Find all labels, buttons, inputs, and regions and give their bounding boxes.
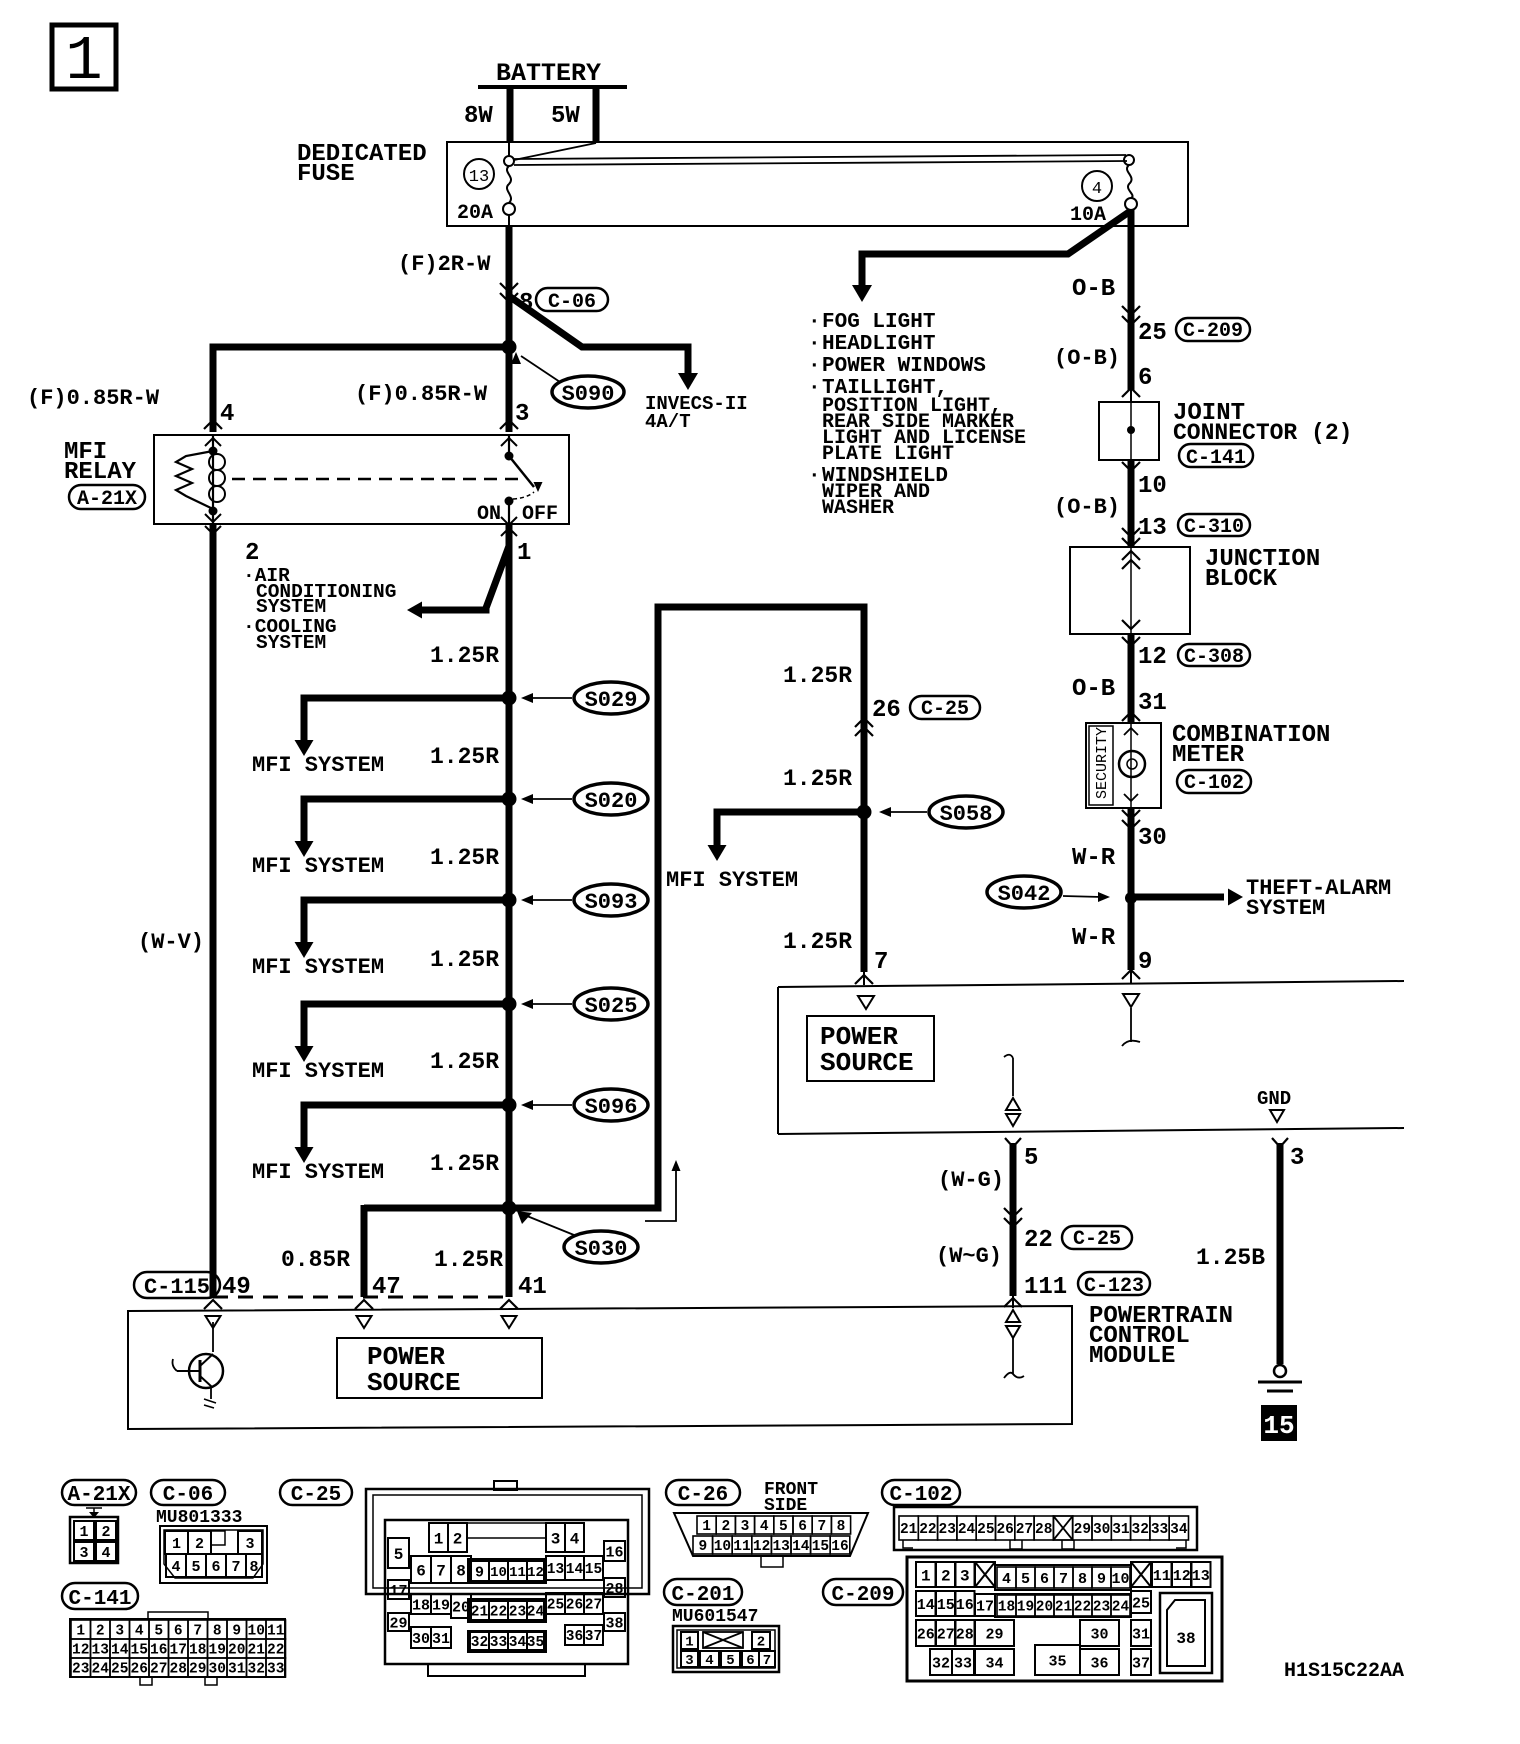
relay coil: [212, 451, 214, 511]
wire loop S030 up to power source feed: [364, 607, 864, 1208]
svg-text:C-308: C-308: [1184, 646, 1244, 669]
connector C-06 tag bottom: [151, 1480, 225, 1505]
svg-text:25: 25: [1138, 320, 1167, 347]
svg-text:(F)0.85R-W: (F)0.85R-W: [355, 382, 488, 407]
svg-text:4: 4: [220, 401, 234, 428]
svg-text:1: 1: [685, 1635, 693, 1651]
svg-text:34: 34: [509, 1635, 527, 1651]
svg-text:25: 25: [1132, 1595, 1150, 1612]
transistor inside PCM: [212, 1322, 214, 1352]
terminal chevron pin 12: [1122, 637, 1140, 646]
svg-text:MFI SYSTEM: MFI SYSTEM: [252, 1059, 384, 1084]
splice S029 junction node: [502, 691, 517, 706]
splice S058 junction node: [857, 805, 872, 820]
svg-text:14: 14: [566, 1562, 584, 1578]
svg-text:13: 13: [469, 168, 489, 187]
svg-text:31: 31: [432, 1631, 450, 1648]
svg-text:8: 8: [213, 1624, 222, 1640]
svg-text:31: 31: [1112, 1522, 1130, 1538]
connector C-25 pin view shell: [366, 1489, 649, 1594]
splice S030 tag: [564, 1231, 638, 1263]
svg-text:12: 12: [753, 1539, 770, 1555]
svg-text:3: 3: [741, 1519, 750, 1535]
svg-text:10A: 10A: [1070, 204, 1106, 227]
relay resistor: [176, 451, 213, 509]
svg-text:33: 33: [267, 1662, 284, 1678]
connector C-25 tag bottom: [1062, 1226, 1132, 1249]
terminal triangle 41: [502, 1316, 517, 1328]
connector C-141 tag bottom: [62, 1583, 138, 1609]
svg-text:6: 6: [746, 1653, 754, 1669]
svg-text:1: 1: [517, 540, 531, 567]
svg-text:14: 14: [917, 1597, 935, 1614]
svg-text:GND: GND: [1257, 1088, 1291, 1110]
svg-text:23: 23: [1093, 1600, 1110, 1616]
connector C-25 tag bottom: [280, 1480, 352, 1505]
terminal chevron pin 9: [1122, 970, 1140, 979]
svg-text:41: 41: [518, 1274, 547, 1301]
svg-text:10: 10: [490, 1565, 507, 1581]
wire 1.25B ground: [1272, 1138, 1288, 1147]
svg-text:15: 15: [937, 1597, 955, 1614]
wire (F)2R-W from fuse 13: [506, 226, 513, 300]
svg-text:1.25R: 1.25R: [430, 845, 499, 871]
terminal triangle 47: [357, 1316, 372, 1328]
connector C-06 tag: [536, 288, 608, 311]
branch to light systems: [862, 212, 1129, 286]
splice S020 tag: [574, 783, 648, 815]
connector C-06 pin view: [160, 1526, 267, 1583]
svg-text:9: 9: [698, 1539, 707, 1555]
svg-text:2: 2: [757, 1635, 765, 1651]
connector C-141 tag: [1179, 444, 1253, 467]
svg-text:1.25R: 1.25R: [783, 929, 852, 955]
junction node on R-W wire: [502, 340, 517, 355]
svg-text:2: 2: [721, 1519, 730, 1535]
svg-text:26: 26: [131, 1662, 148, 1678]
fuse 4 circle: [1082, 171, 1112, 201]
splice S029 tag: [574, 682, 648, 714]
svg-text:S096: S096: [585, 1095, 638, 1120]
svg-text:1.25R: 1.25R: [430, 1151, 499, 1177]
svg-text:26: 26: [917, 1626, 935, 1643]
powertrain control module box: [128, 1306, 1072, 1429]
svg-text:2: 2: [96, 1624, 105, 1640]
wire 47 branch: [361, 1205, 368, 1297]
svg-text:2: 2: [195, 1536, 204, 1553]
wire 5W from battery: [593, 87, 600, 143]
svg-text:1.25R: 1.25R: [430, 744, 499, 770]
splice S042 tag: [987, 876, 1061, 908]
svg-text:30: 30: [209, 1662, 226, 1678]
svg-text:1: 1: [702, 1519, 711, 1535]
svg-text:1: 1: [434, 1530, 444, 1548]
svg-text:C-25: C-25: [921, 698, 969, 721]
svg-text:WASHER: WASHER: [822, 497, 894, 520]
terminal chevron pin 111: [1004, 1298, 1022, 1307]
svg-text:·: ·: [808, 465, 821, 488]
svg-text:BATTERY: BATTERY: [496, 59, 601, 88]
battery bus bar: [478, 85, 627, 89]
svg-text:26: 26: [996, 1522, 1013, 1538]
arrow S020 to junction: [528, 798, 572, 800]
svg-text:20: 20: [1036, 1600, 1053, 1616]
svg-text:S093: S093: [585, 890, 638, 915]
reference arrow at loop: [645, 1168, 676, 1221]
svg-text:26: 26: [872, 697, 901, 724]
svg-text:8: 8: [249, 1559, 258, 1576]
svg-text:14: 14: [792, 1539, 810, 1555]
svg-text:33: 33: [490, 1635, 507, 1651]
terminal chevron pin 3: [500, 420, 518, 429]
svg-text:18: 18: [412, 1597, 430, 1614]
svg-text:W-R: W-R: [1072, 845, 1116, 872]
svg-text:30: 30: [1093, 1522, 1110, 1538]
svg-text:·: ·: [808, 377, 821, 400]
splice S025 junction node: [502, 997, 517, 1012]
svg-text:12: 12: [1173, 1568, 1191, 1585]
svg-text:11: 11: [267, 1624, 285, 1640]
fuse 13 element: [508, 143, 510, 157]
svg-text:4: 4: [171, 1559, 180, 1576]
connector C-26 pin view: [674, 1513, 868, 1556]
svg-text:27: 27: [937, 1626, 955, 1643]
connector C-123 tag: [1078, 1272, 1150, 1295]
wire W-V pin2 to PCM 49: [210, 524, 217, 1297]
svg-text:22: 22: [1024, 1227, 1053, 1254]
terminal chevron pin 31: [1122, 712, 1140, 721]
svg-text:·: ·: [808, 311, 821, 334]
terminal chevron pin 4: [204, 420, 222, 429]
arrow S093 to junction: [528, 899, 572, 901]
svg-text:C-141: C-141: [68, 1588, 131, 1611]
svg-text:2: 2: [453, 1530, 463, 1548]
connector C-115 tag: [134, 1272, 220, 1298]
svg-text:C-123: C-123: [1084, 1275, 1144, 1298]
svg-text:PLATE LIGHT: PLATE LIGHT: [822, 443, 954, 466]
svg-text:22: 22: [490, 1605, 507, 1621]
arrow S029 to junction: [528, 697, 572, 699]
svg-text:(W-V): (W-V): [138, 930, 204, 955]
connector 30 chevrons: [1122, 810, 1140, 819]
terminal chevron 41: [500, 1300, 518, 1309]
svg-text:S029: S029: [585, 688, 638, 713]
relay coil bottom node: [209, 507, 218, 516]
svg-text:29: 29: [1074, 1522, 1091, 1538]
svg-text:2: 2: [941, 1567, 951, 1585]
arrow S025 to junction: [528, 1003, 572, 1005]
splice S025 tag: [574, 988, 648, 1020]
svg-text:1.25R: 1.25R: [430, 643, 499, 669]
arrow S090 to junction: [521, 356, 560, 382]
svg-text:1.25R: 1.25R: [430, 947, 499, 973]
svg-text:C-209: C-209: [1183, 320, 1243, 343]
svg-text:6: 6: [798, 1519, 807, 1535]
svg-text:20A: 20A: [457, 202, 493, 225]
svg-text:21: 21: [1055, 1600, 1073, 1616]
svg-text:38: 38: [605, 1615, 623, 1632]
svg-text:(W-G): (W-G): [938, 1168, 1004, 1193]
junction node W-R: [1125, 892, 1137, 904]
svg-text:34: 34: [985, 1655, 1003, 1672]
svg-text:4: 4: [1002, 1571, 1011, 1588]
connector A-21X tag: [69, 485, 145, 509]
connector C-102 pin view: [894, 1507, 1197, 1550]
svg-text:MFI SYSTEM: MFI SYSTEM: [252, 854, 384, 879]
svg-text:1: 1: [79, 1524, 88, 1541]
svg-text:1: 1: [65, 26, 102, 97]
svg-text:33: 33: [1151, 1522, 1168, 1538]
svg-text:37: 37: [585, 1629, 602, 1645]
svg-text:17: 17: [389, 1583, 407, 1600]
svg-text:30: 30: [412, 1631, 430, 1648]
svg-text:4: 4: [101, 1545, 110, 1562]
svg-text:C-201: C-201: [671, 1584, 734, 1607]
svg-text:8: 8: [837, 1519, 846, 1535]
svg-text:9: 9: [1138, 949, 1152, 976]
svg-text:37: 37: [1132, 1655, 1150, 1672]
svg-text:1.25R: 1.25R: [430, 1049, 499, 1075]
svg-text:C-25: C-25: [1073, 1228, 1121, 1251]
svg-text:A-21X: A-21X: [67, 1484, 130, 1507]
svg-text:3: 3: [551, 1530, 561, 1548]
svg-text:29: 29: [389, 1615, 407, 1632]
svg-text:32: 32: [932, 1655, 950, 1672]
connector C-310 tag: [1178, 514, 1250, 536]
ground symbol: [1274, 1365, 1286, 1377]
svg-text:(O-B): (O-B): [1054, 346, 1120, 371]
relay coil top node: [205, 438, 221, 446]
svg-text:18: 18: [189, 1643, 206, 1659]
svg-text:1: 1: [921, 1567, 931, 1585]
svg-text:5: 5: [394, 1546, 404, 1564]
svg-text:10: 10: [1111, 1571, 1129, 1588]
svg-text:31: 31: [1138, 690, 1167, 717]
svg-text:S058: S058: [940, 802, 993, 827]
svg-text:HEADLIGHT: HEADLIGHT: [822, 333, 935, 356]
svg-text:·: ·: [808, 355, 821, 378]
svg-text:15: 15: [585, 1562, 602, 1578]
relay actuation dashed link: [232, 478, 520, 481]
svg-text:9: 9: [475, 1564, 484, 1581]
svg-text:C-26: C-26: [678, 1484, 728, 1507]
connector C-102 tag: [1177, 770, 1251, 793]
svg-text:13: 13: [1192, 1568, 1210, 1585]
svg-text:SOURCE: SOURCE: [367, 1368, 461, 1398]
svg-text:ON: ON: [477, 503, 501, 526]
svg-text:111: 111: [1024, 1274, 1067, 1301]
svg-text:31: 31: [228, 1662, 246, 1678]
svg-text:S090: S090: [562, 382, 615, 407]
svg-text:25: 25: [111, 1662, 128, 1678]
svg-text:29: 29: [985, 1626, 1003, 1643]
svg-text:15: 15: [131, 1643, 148, 1659]
svg-text:6: 6: [1040, 1571, 1049, 1588]
svg-text:7: 7: [436, 1562, 446, 1580]
svg-text:33: 33: [954, 1655, 972, 1672]
svg-text:15: 15: [812, 1539, 829, 1555]
branch S093 to MFI system: [304, 900, 509, 942]
svg-text:C-115: C-115: [144, 1275, 210, 1300]
svg-text:6: 6: [1138, 365, 1152, 392]
svg-text:9: 9: [232, 1624, 241, 1640]
svg-text:38: 38: [1176, 1630, 1195, 1648]
svg-text:16: 16: [150, 1643, 167, 1659]
svg-text:16: 16: [831, 1539, 848, 1555]
svg-text:21: 21: [471, 1605, 489, 1621]
svg-text:29: 29: [189, 1662, 206, 1678]
svg-text:7: 7: [817, 1519, 826, 1535]
svg-text:METER: METER: [1172, 742, 1245, 769]
connector A-21X tag bottom: [62, 1480, 136, 1505]
svg-text:26: 26: [566, 1598, 583, 1614]
svg-text:(F)0.85R-W: (F)0.85R-W: [27, 386, 160, 411]
svg-text:27: 27: [585, 1598, 602, 1614]
svg-text:S030: S030: [575, 1237, 628, 1262]
svg-text:2: 2: [101, 1524, 110, 1541]
terminal triangle wire 7: [858, 996, 874, 1009]
terminal chevron pin 6: [1122, 388, 1140, 397]
branch S096 to MFI system: [304, 1105, 509, 1147]
svg-text:SYSTEM: SYSTEM: [256, 632, 326, 654]
svg-text:SECURITY: SECURITY: [1094, 727, 1111, 799]
svg-text:15: 15: [1263, 1411, 1294, 1441]
svg-text:S025: S025: [585, 994, 638, 1019]
svg-text:18: 18: [998, 1600, 1015, 1616]
svg-text:MU601547: MU601547: [672, 1607, 758, 1627]
MFI relay box: [154, 435, 569, 524]
svg-text:9: 9: [1097, 1571, 1106, 1588]
splice S058 tag: [929, 796, 1003, 828]
wire 8W from battery: [507, 87, 514, 143]
svg-text:6: 6: [211, 1559, 220, 1576]
svg-text:3: 3: [685, 1653, 693, 1669]
svg-text:C-209: C-209: [831, 1584, 894, 1607]
svg-text:23: 23: [72, 1662, 89, 1678]
page link box 15: [1262, 1406, 1296, 1440]
arrow S096 to junction: [528, 1104, 572, 1106]
svg-text:35: 35: [1048, 1653, 1066, 1670]
svg-text:8: 8: [1078, 1571, 1087, 1588]
branch S029 to MFI system: [304, 698, 509, 740]
svg-text:5: 5: [779, 1519, 788, 1535]
connector 26 C-25 chevrons: [855, 718, 873, 727]
svg-text:19: 19: [209, 1643, 226, 1659]
svg-text:25: 25: [977, 1522, 994, 1538]
svg-text:1: 1: [172, 1536, 181, 1553]
connector 25 C-209 chevrons: [1122, 306, 1140, 315]
svg-text:SOURCE: SOURCE: [820, 1048, 914, 1078]
svg-text:3: 3: [245, 1536, 254, 1553]
svg-text:22: 22: [1074, 1600, 1091, 1616]
connector A-21X pin view: [86, 1508, 102, 1512]
svg-text:11: 11: [509, 1565, 526, 1581]
svg-text:14: 14: [111, 1643, 129, 1659]
svg-text:32: 32: [1132, 1522, 1149, 1538]
svg-text:13: 13: [92, 1643, 109, 1659]
svg-text:30: 30: [1090, 1626, 1108, 1643]
svg-text:MFI SYSTEM: MFI SYSTEM: [666, 868, 798, 893]
connector C-308 tag: [1178, 644, 1250, 666]
svg-text:5W: 5W: [551, 103, 580, 130]
wire (F)0.85R-W below C-06: [506, 296, 513, 347]
wire to MFI relay pin 3: [506, 347, 513, 432]
svg-text:10: 10: [714, 1539, 731, 1555]
svg-text:C-102: C-102: [889, 1484, 952, 1507]
svg-text:13: 13: [547, 1562, 564, 1578]
power source label box: [807, 1016, 934, 1081]
svg-text:3: 3: [515, 401, 529, 428]
svg-text:12: 12: [527, 1565, 544, 1581]
svg-text:C-06: C-06: [548, 291, 596, 314]
svg-text:25: 25: [547, 1598, 564, 1614]
svg-text:30: 30: [1138, 825, 1167, 852]
svg-text:(F)2R-W: (F)2R-W: [398, 252, 491, 277]
svg-text:21: 21: [900, 1522, 918, 1538]
terminal chevron pin 10: [1122, 462, 1140, 471]
svg-text:SYSTEM: SYSTEM: [256, 596, 326, 618]
svg-text:1.25R: 1.25R: [783, 766, 852, 792]
svg-text:(O-B): (O-B): [1054, 495, 1120, 520]
svg-text:1.25R: 1.25R: [434, 1247, 503, 1273]
connector 22 C-25 chevrons: [1004, 1208, 1022, 1217]
svg-text:3: 3: [79, 1545, 88, 1562]
fuse 4 element: [1124, 155, 1134, 165]
terminal triangle wire 9: [1123, 994, 1139, 1007]
combination meter box: [1086, 723, 1161, 808]
wire O-B from fuse 4: [1128, 210, 1135, 390]
svg-text:22: 22: [267, 1643, 284, 1659]
svg-text:4: 4: [705, 1653, 713, 1669]
relay switch common: [501, 438, 517, 446]
svg-text:C-310: C-310: [1184, 516, 1244, 539]
connector C-209 tag: [1176, 318, 1250, 341]
svg-text:8W: 8W: [464, 103, 493, 130]
wire W-G pin 5: [1005, 1138, 1021, 1147]
svg-text:24: 24: [1112, 1600, 1130, 1616]
svg-text:C-141: C-141: [1186, 447, 1246, 470]
branch to theft-alarm system: [1131, 894, 1224, 901]
svg-text:13: 13: [772, 1539, 789, 1555]
svg-text:19: 19: [1017, 1600, 1034, 1616]
svg-text:17: 17: [170, 1643, 187, 1659]
splice S030 junction node: [502, 1201, 517, 1216]
svg-text:4: 4: [760, 1519, 769, 1535]
svg-text:28: 28: [170, 1662, 187, 1678]
terminal chevron pin 7: [855, 975, 873, 984]
svg-text:28: 28: [956, 1626, 974, 1643]
svg-text:2: 2: [245, 540, 259, 567]
joint connector (2) box: [1099, 402, 1159, 460]
svg-text:POWER WINDOWS: POWER WINDOWS: [822, 355, 986, 378]
svg-text:23: 23: [939, 1522, 956, 1538]
svg-text:MODULE: MODULE: [1089, 1343, 1175, 1370]
svg-text:S042: S042: [998, 882, 1051, 907]
terminal triangle 49: [206, 1316, 221, 1328]
bus wire from battery to fuse 4: [514, 143, 596, 160]
svg-text:SYSTEM: SYSTEM: [1246, 896, 1325, 921]
arrow S030 to junction: [527, 1216, 574, 1235]
svg-text:5: 5: [726, 1653, 734, 1669]
branch to INVECS-II: [509, 296, 688, 374]
svg-text:7: 7: [231, 1559, 240, 1576]
svg-text:C-06: C-06: [163, 1484, 213, 1507]
svg-text:12: 12: [1138, 644, 1167, 671]
svg-text:CONNECTOR (2): CONNECTOR (2): [1173, 420, 1352, 446]
svg-text:(W~G): (W~G): [936, 1244, 1002, 1269]
branch to A/C and cooling: [422, 546, 509, 610]
svg-text:12: 12: [72, 1643, 89, 1659]
